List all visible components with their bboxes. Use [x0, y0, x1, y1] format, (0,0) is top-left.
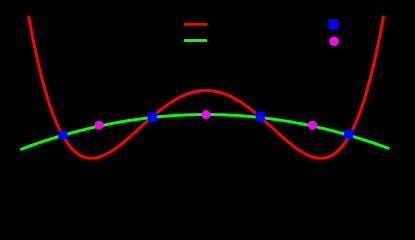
legend sample: green line	[184, 39, 207, 42]
legend marker: blue square	[329, 19, 339, 29]
data point: blue square 3	[256, 112, 265, 121]
data point: blue square 4	[344, 130, 353, 139]
data point: magenta circle 1	[94, 121, 103, 130]
red fit curve (high-order polynomial)	[29, 16, 384, 159]
data point: blue square 1	[59, 131, 68, 140]
data point: blue square 2	[148, 112, 157, 121]
data point: magenta circle 3	[308, 121, 317, 130]
green fit curve (quadratic)	[20, 115, 389, 150]
data point: magenta circle 2 (center)	[201, 110, 210, 119]
legend sample: red line	[184, 23, 207, 26]
legend marker: magenta circle	[329, 36, 339, 46]
